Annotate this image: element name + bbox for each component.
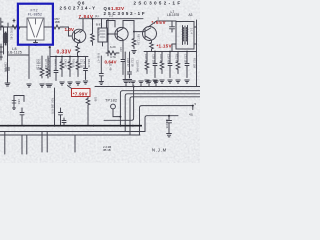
resistor below 7.99V bbox=[86, 97, 90, 126]
Q6 emitter arrow bbox=[79, 40, 81, 42]
Q8 emitter wire bbox=[122, 40, 124, 46]
ground bbox=[123, 80, 127, 83]
drop x42 bbox=[41, 132, 43, 153]
line y105.6 corner bbox=[140, 106, 193, 135]
ground bbox=[83, 81, 87, 84]
svg-text:(1): (1) bbox=[95, 14, 99, 18]
bus line y134.5 bbox=[0, 134, 140, 136]
ground stubs row bbox=[124, 81, 128, 87]
component box (between Q6/Q8) bbox=[98, 28, 107, 42]
column x125 bbox=[124, 52, 126, 79]
main dark bus bbox=[0, 125, 142, 127]
ground bbox=[176, 80, 180, 83]
wire transformer bottom bbox=[4, 46, 8, 55]
resistor R57 (right of filter) bbox=[49, 25, 62, 29]
column x155 bbox=[153, 52, 157, 78]
svg-text:*1.15V: *1.15V bbox=[157, 44, 173, 49]
svg-text:C8B 188: C8B 188 bbox=[4, 62, 8, 73]
bus node dots bbox=[7, 125, 134, 127]
svg-text:7.84V: 7.84V bbox=[79, 14, 94, 19]
drop x26.8 bbox=[26, 135, 28, 154]
vertical x133.6 corner west bbox=[104, 87, 134, 121]
svg-text:N.J.M: N.J.M bbox=[152, 148, 167, 153]
svg-text:3B 1B: 3B 1B bbox=[103, 148, 111, 152]
svg-text:5 1 4: 5 1 4 bbox=[190, 28, 194, 34]
svg-text:C11 4B: C11 4B bbox=[109, 62, 113, 71]
svg-text:433 156: 433 156 bbox=[165, 119, 169, 129]
Q7 emitter resistor bbox=[150, 40, 154, 52]
svg-text:R33 15B: R33 15B bbox=[193, 58, 197, 68]
column x50 bbox=[49, 57, 51, 77]
svg-text:R 86 4.7: R 86 4.7 bbox=[97, 53, 101, 63]
filter pins bbox=[22, 27, 49, 43]
resistor (x134) bbox=[132, 32, 136, 49]
wire Q8c to Q7 base bbox=[134, 31, 145, 33]
TP wire bbox=[113, 109, 120, 117]
ground bbox=[60, 82, 64, 85]
svg-text:C33 1B: C33 1B bbox=[184, 54, 188, 63]
left edge component bbox=[1, 18, 3, 30]
ground bbox=[185, 80, 189, 83]
red voltage box 7.99V bbox=[72, 89, 91, 97]
highlight box (blue) bbox=[18, 4, 53, 45]
resistor x70 bbox=[68, 57, 72, 77]
ground bbox=[46, 84, 50, 87]
svg-text:2SC3052-1F: 2SC3052-1F bbox=[134, 1, 183, 6]
capacitor x85.5 bbox=[84, 57, 88, 80]
ground bbox=[5, 83, 10, 86]
svg-text:R61 2K: R61 2K bbox=[87, 59, 91, 68]
node dot bbox=[92, 18, 94, 20]
ground bbox=[168, 80, 172, 83]
svg-text:C84: C84 bbox=[17, 99, 21, 104]
ground bbox=[48, 84, 52, 87]
svg-text:FL-8852: FL-8852 bbox=[28, 13, 42, 17]
svg-text:*.65V: *.65V bbox=[152, 20, 167, 25]
corner line C bbox=[130, 97, 200, 135]
svg-text:1BB: 1BB bbox=[55, 20, 60, 24]
svg-text:188: 188 bbox=[94, 97, 98, 102]
svg-text:LB-1578: LB-1578 bbox=[167, 13, 179, 17]
svg-text:R77 194: R77 194 bbox=[44, 59, 48, 69]
svg-text:A23: A23 bbox=[119, 47, 123, 52]
ground bbox=[132, 51, 136, 54]
resistor x78 bbox=[76, 57, 80, 77]
column x170 bbox=[168, 52, 172, 78]
wire x54.5 bbox=[54, 88, 56, 126]
svg-text:43): 43) bbox=[189, 113, 193, 117]
corner line B bbox=[125, 94, 200, 132]
svg-text:R58 33A: R58 33A bbox=[60, 59, 64, 69]
transistor Q7 bbox=[143, 27, 157, 41]
ground bbox=[127, 80, 131, 83]
svg-text:0.33V: 0.33V bbox=[57, 49, 72, 55]
ground bbox=[145, 80, 149, 83]
svg-text:R18 47B: R18 47B bbox=[144, 54, 148, 64]
cap near L7 bbox=[170, 22, 175, 33]
transistor Q8 bbox=[115, 27, 128, 40]
svg-text:R87 2.2A: R87 2.2A bbox=[137, 34, 141, 45]
svg-text:R3A 1K: R3A 1K bbox=[159, 54, 163, 63]
svg-text:LB-1125: LB-1125 bbox=[8, 50, 22, 54]
node dots TP area bbox=[119, 116, 121, 118]
resistor x48 bbox=[46, 56, 50, 78]
svg-text:R4A 4.7K: R4A 4.7K bbox=[54, 59, 58, 70]
resistor (Q6 collector load) bbox=[91, 19, 95, 45]
leader bbox=[68, 86, 72, 89]
wire stub above resistor bbox=[7, 23, 9, 27]
svg-text:4.7A: 4.7A bbox=[110, 55, 116, 59]
svg-text:R59 56: R59 56 bbox=[72, 59, 76, 68]
svg-text:C49 47: C49 47 bbox=[64, 59, 68, 68]
L7 pins bbox=[172, 27, 197, 52]
svg-text:2SC2714-Y: 2SC2714-Y bbox=[60, 5, 97, 10]
cap x60 bottom bbox=[59, 108, 63, 126]
column x187 bbox=[185, 52, 189, 78]
connector hat bbox=[107, 21, 116, 28]
rail node dots bbox=[154, 51, 188, 53]
ground bbox=[27, 84, 31, 87]
wire y55 left bbox=[8, 54, 30, 56]
node dot bbox=[133, 31, 135, 33]
ground bbox=[167, 134, 172, 137]
column x178 bbox=[176, 52, 180, 74]
svg-text:*7.99V: *7.99V bbox=[73, 91, 89, 96]
node dots on rail bbox=[55, 56, 79, 58]
svg-text:X2 CF: X2 CF bbox=[97, 29, 101, 37]
resistor horizontal (0.64V node) bbox=[106, 51, 119, 55]
drop x4.8 bbox=[4, 132, 6, 155]
svg-text:C18 R-841: C18 R-841 bbox=[136, 60, 140, 73]
ground bbox=[153, 80, 157, 83]
svg-text:6.2X: 6.2X bbox=[110, 45, 116, 49]
column x29 bbox=[28, 46, 30, 79]
svg-text:C51 1B: C51 1B bbox=[80, 59, 84, 68]
node dot bbox=[168, 115, 170, 117]
svg-text:C88 C-8123: C88 C-8123 bbox=[48, 58, 52, 73]
left edge connector bbox=[0, 44, 2, 60]
ground bbox=[68, 82, 72, 85]
resistor R (left of filter) bbox=[12, 25, 20, 29]
ground bbox=[76, 82, 80, 85]
Q8 base wire bbox=[108, 33, 117, 35]
resistor x62 bbox=[60, 57, 64, 77]
svg-text:C1B 47: C1B 47 bbox=[126, 58, 130, 67]
svg-text:B 87: B 87 bbox=[96, 22, 102, 26]
column x147 bbox=[145, 52, 149, 74]
node dot bbox=[107, 33, 109, 35]
TP182 test point bbox=[111, 104, 116, 109]
capacitor C (left column) bbox=[6, 68, 10, 82]
wire input left bbox=[0, 26, 22, 28]
capacitor (bottom right component) bbox=[167, 116, 172, 133]
vertical line x108 bbox=[107, 19, 109, 56]
rail top right bbox=[113, 18, 143, 20]
resistor x42 bbox=[40, 56, 44, 78]
node column left bbox=[7, 55, 9, 82]
long h-line y86.5 bbox=[95, 86, 200, 88]
wire emitter down bbox=[78, 42, 81, 47]
node dot below box bbox=[49, 46, 51, 48]
drop x75 bbox=[74, 135, 76, 152]
wire to Q6 base bbox=[62, 27, 72, 36]
tick B bbox=[13, 19, 15, 22]
right edge wire bbox=[196, 20, 198, 87]
Q8 emitter column caps bbox=[121, 46, 125, 75]
ground (filter) bbox=[34, 43, 38, 46]
C84 loop bbox=[14, 96, 24, 109]
caps x129 bbox=[128, 52, 132, 78]
Q8 collector wire bbox=[123, 21, 134, 32]
svg-text:C3B 1B: C3B 1B bbox=[152, 54, 156, 63]
transformer box L7 bbox=[176, 22, 194, 50]
wire bbox=[49, 47, 51, 57]
cap C84 bbox=[12, 101, 16, 104]
svg-text:C3A 4B: C3A 4B bbox=[167, 54, 171, 63]
vertical tiny labels bbox=[4, 28, 197, 129]
bus line y131 bbox=[0, 131, 145, 133]
ground bbox=[40, 84, 44, 87]
transistor Q6 bbox=[72, 29, 86, 43]
svg-text:B 82 C-81: B 82 C-81 bbox=[10, 28, 14, 40]
Q7 collector wire bbox=[149, 21, 177, 27]
ground bbox=[99, 82, 103, 85]
svg-text:R50 1BB R76: R50 1BB R76 bbox=[51, 98, 55, 114]
capacitor x56 bbox=[54, 57, 58, 81]
right rail bbox=[144, 51, 197, 53]
corner line A bbox=[120, 91, 200, 126]
Q6 collector wire bbox=[80, 19, 83, 33]
transformer L (left edge) bbox=[4, 31, 8, 46]
mid rail (Q6 area) bbox=[50, 56, 88, 58]
cap x22 bottom bbox=[20, 108, 24, 126]
svg-text:A3: A3 bbox=[189, 13, 193, 17]
wire transformer top bbox=[4, 27, 8, 31]
scan grain bbox=[0, 0, 200, 163]
ground C84 bbox=[13, 108, 16, 109]
column x101 with cap bbox=[99, 56, 103, 81]
tiny cap on bus bbox=[62, 118, 66, 126]
corner east y115.7 bbox=[145, 116, 178, 132]
svg-text:C12 1B: C12 1B bbox=[131, 58, 135, 67]
rail top (Q6 supply) bbox=[79, 18, 113, 20]
svg-text:R6B 470: R6B 470 bbox=[76, 59, 80, 70]
resistor (Q6 emitter) bbox=[76, 46, 80, 56]
ground bbox=[160, 80, 164, 83]
svg-text:TP182: TP182 bbox=[105, 99, 117, 103]
svg-text:2.2: 2.2 bbox=[109, 14, 113, 18]
drop x22 bbox=[21, 135, 23, 154]
column x162 bbox=[160, 52, 164, 74]
svg-text:R33 47: R33 47 bbox=[175, 54, 179, 63]
svg-text:0.28 2.2R: 0.28 2.2R bbox=[36, 59, 40, 70]
svg-text:1.0V: 1.0V bbox=[65, 27, 75, 32]
drop x47 bbox=[46, 132, 48, 153]
svg-text:C31 1.5K: C31 1.5K bbox=[68, 59, 72, 70]
filter FT2 body bbox=[27, 18, 44, 40]
